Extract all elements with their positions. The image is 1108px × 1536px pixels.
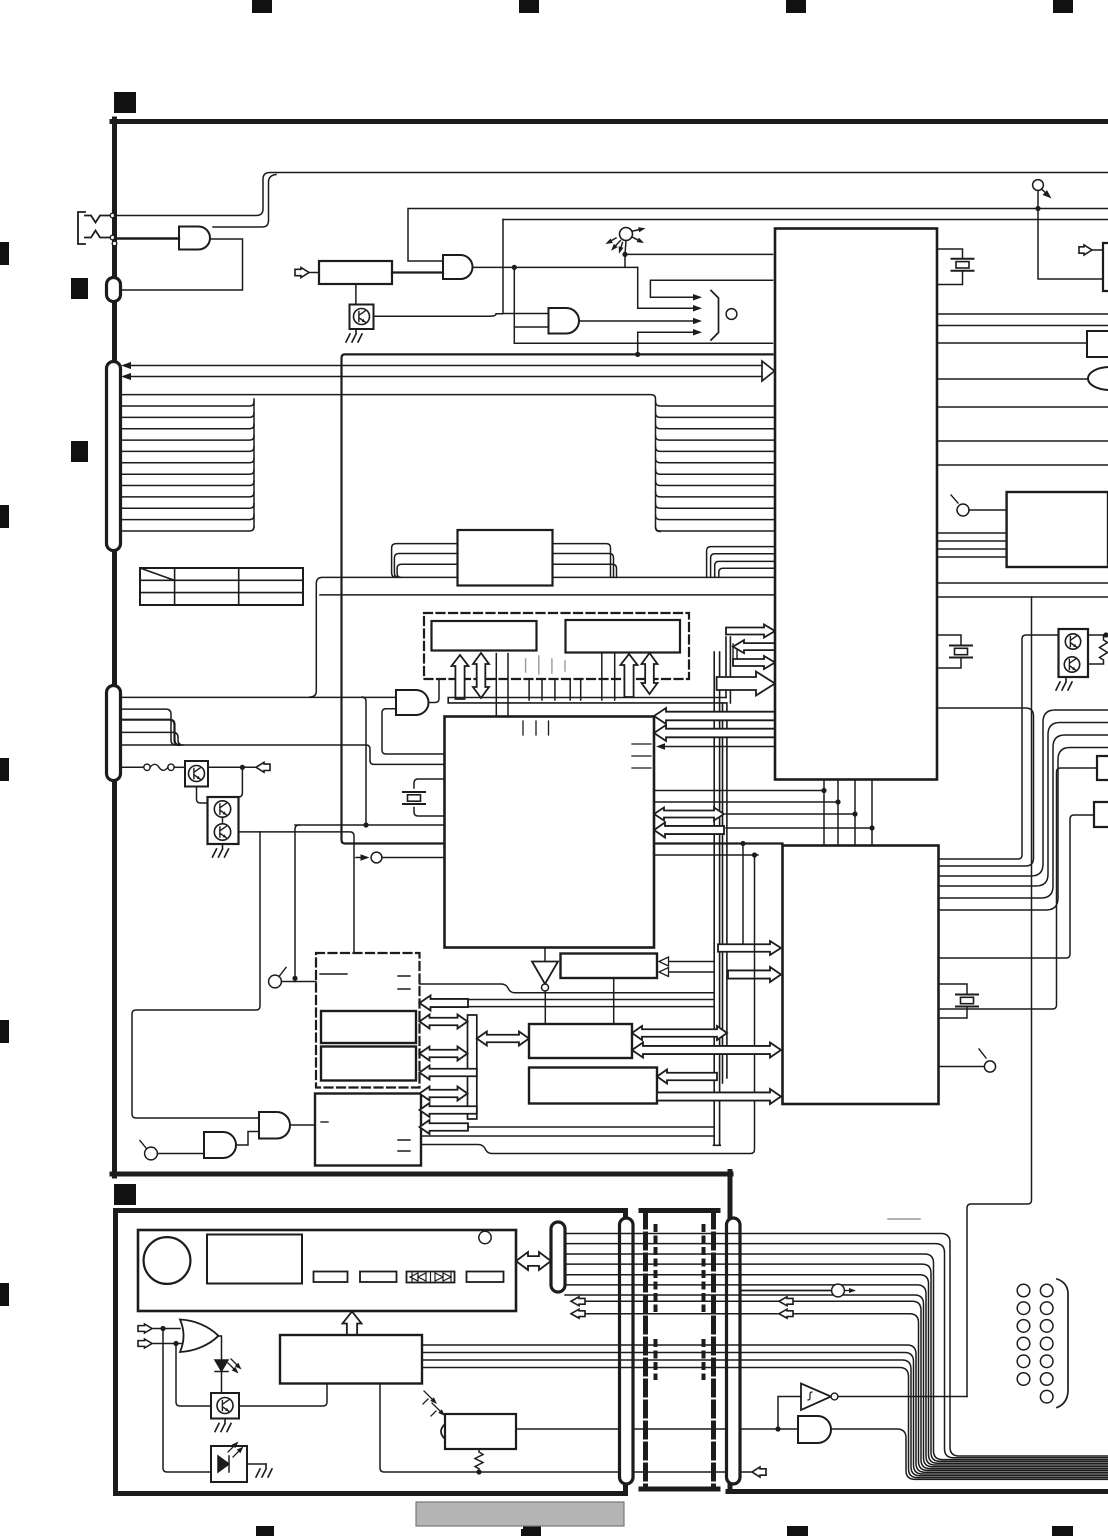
crystal X4 loop — [937, 635, 961, 668]
button 2 — [360, 1272, 397, 1283]
and gate G10 — [798, 1416, 831, 1443]
connector CN-S3 — [551, 1222, 565, 1292]
wire inverter out to N5 — [544, 991, 546, 1024]
arrow N5 to IC2 long — [632, 1043, 781, 1058]
R2R3 link channel — [733, 644, 737, 665]
junction dot on y354 — [635, 352, 640, 357]
line bus L3 — [503, 219, 1108, 221]
arrowhead fan 3 — [693, 318, 702, 324]
dot circles bracket — [1057, 1279, 1068, 1408]
ground under Q3 — [213, 844, 229, 857]
and gate G2 — [443, 255, 473, 279]
registration mark top 1 — [252, 0, 272, 13]
crystal X2 loop — [414, 779, 445, 816]
up arrow into display — [343, 1312, 362, 1336]
display to CN ldarrow — [516, 1252, 551, 1270]
testpoint circle TP3 — [832, 1284, 845, 1297]
bus arrowhead lower — [121, 373, 131, 380]
grey ticks under blocks — [526, 656, 565, 674]
channel chB lower — [723, 703, 727, 1083]
arrowhead fan 2 — [693, 305, 702, 311]
offpage arrow left — [256, 762, 270, 772]
jack contact 1 — [110, 213, 115, 218]
junction dot G2 out — [512, 265, 517, 270]
registration mark top 2 — [519, 0, 539, 13]
resistor R2 — [475, 1449, 483, 1472]
IC1 bottom pin 3 — [854, 780, 856, 846]
block N4 — [315, 1094, 421, 1166]
display bus 7 wires bundle — [565, 1234, 1108, 1467]
button 1 — [314, 1272, 348, 1283]
headphone jack J1 — [78, 212, 111, 244]
dashed box DB1 — [424, 613, 689, 679]
registration mark top 4 — [1053, 0, 1073, 13]
arrowhead fan 4 — [693, 329, 702, 335]
arrow A1 N2-VB — [420, 1015, 468, 1029]
ground under Q1 — [346, 329, 362, 342]
or input arrow 1 — [138, 1324, 152, 1333]
K1 input line y577 — [310, 577, 457, 697]
display circle pin — [479, 1231, 491, 1243]
wire x743 down to B1 — [742, 844, 744, 945]
updown arrow under M2 — [642, 653, 658, 694]
arrow L1 into U3 — [654, 708, 775, 724]
dot circles column 1 — [1017, 1284, 1030, 1297]
fan bracket — [711, 291, 719, 341]
frame 2 border — [116, 1211, 626, 1494]
wire DB2 S-bend — [420, 984, 715, 993]
wire D1 to Q5 — [221, 1372, 223, 1394]
wire branch x260 long L — [132, 832, 260, 1118]
section square A — [114, 92, 136, 113]
wire y825 to IC3 — [295, 824, 445, 826]
registration mark bottom center — [521, 1529, 538, 1536]
registration mark bottom 2 — [523, 1526, 541, 1536]
burst junction wire — [625, 254, 773, 267]
arrowhead fan 1 — [693, 294, 702, 300]
wire arrow1 U — [650, 280, 772, 297]
or input arrow 2 — [138, 1339, 152, 1348]
wire N1 down to N5 — [613, 978, 615, 1024]
wire G6 lower input — [382, 709, 445, 754]
connector CN-S1 — [620, 1218, 634, 1484]
transistor Q3 Q4 box — [208, 797, 239, 844]
wire branch x366 down — [362, 697, 366, 825]
arrow into DB2 left ch — [420, 996, 469, 1011]
wire G3 out to fan — [579, 320, 693, 322]
U3 right inner ticks — [632, 744, 651, 768]
light arrows into P2 — [424, 1391, 432, 1399]
K1 bus line y577 to IC1 — [553, 576, 776, 578]
arrow B2 into IC2 — [728, 967, 781, 982]
switch circle S5a — [957, 504, 969, 516]
arrow pair right a — [779, 1297, 793, 1306]
IC1 right wire y407 — [937, 406, 1108, 408]
display window — [207, 1235, 302, 1284]
thin arrow into U3 y746 — [664, 746, 775, 748]
button 4 — [467, 1272, 504, 1283]
K1 left comb wire 2 — [394, 554, 457, 578]
wire Q3 out — [239, 832, 355, 953]
transistor QR box — [1059, 629, 1089, 677]
wire S2a to DB2 — [282, 981, 317, 983]
registration mark left 4 — [0, 1020, 9, 1043]
block P1 under display — [280, 1335, 422, 1384]
transistor Q1 box — [350, 305, 374, 330]
arrow pair left a — [571, 1297, 585, 1306]
wire G1 output loop — [121, 239, 243, 290]
grey tick near S2 — [888, 1218, 920, 1220]
IC1 right wire y465 — [937, 464, 1108, 466]
wire B3r left — [939, 815, 1095, 958]
wire or1 down to LED box — [163, 1329, 211, 1473]
line L1 junction dot — [1035, 206, 1040, 211]
wire x295 switch riser — [295, 825, 299, 978]
block to G2 wire — [392, 271, 443, 273]
arrow A6 into N4 long — [420, 1120, 469, 1134]
vertical bus VB — [468, 1015, 477, 1119]
block N1 — [561, 954, 658, 979]
test circle TP1 — [1033, 180, 1044, 191]
bus split wires into IC1 — [707, 547, 775, 578]
registration mark bottom 4 — [1052, 1526, 1073, 1536]
registration mark top 3 — [786, 0, 806, 13]
arrow R1 into IC1 — [726, 625, 775, 638]
block M2 — [566, 620, 681, 653]
inverter V1 — [532, 962, 558, 985]
inverter V2 — [801, 1384, 831, 1411]
wire N4 S to x754 — [421, 855, 755, 1154]
and gate G3 — [549, 308, 580, 334]
K1 right merge 1 — [553, 544, 611, 578]
and gate G8 — [204, 1132, 236, 1158]
photo interrupter P2 — [445, 1414, 516, 1449]
offpage arrow y1472 — [752, 1467, 766, 1477]
K1 right merge 2 — [553, 554, 614, 578]
IC U2 mechanism control — [783, 846, 939, 1105]
button 3 seek — [407, 1272, 455, 1283]
wire arrow2 jog — [638, 267, 693, 308]
fan merge left 12 wires — [121, 402, 255, 532]
input arrow to B1 — [1079, 245, 1092, 255]
block M1 — [432, 621, 537, 651]
crystal X1 loop — [937, 249, 963, 285]
DB1 pins down — [529, 654, 615, 700]
crystal X1 — [952, 259, 974, 271]
updown arrow under M1 — [473, 653, 489, 698]
resistor RR — [1088, 635, 1108, 664]
registration mark left 2 — [0, 505, 9, 528]
updown arrow U3-chB — [654, 808, 724, 821]
block N6 — [529, 1068, 657, 1104]
dashed box DB2 — [316, 953, 420, 1088]
wire IC2 to S4a — [939, 1066, 985, 1068]
wire L3 down to G3 — [503, 220, 549, 314]
bus channel line lower — [129, 376, 762, 378]
wire S5a to SWbox — [969, 509, 1007, 511]
channel chB upper — [726, 637, 730, 703]
IC1 bottom pin 2 — [837, 780, 839, 846]
display unit box — [138, 1230, 516, 1311]
IC1 bottom pin 4 — [871, 780, 873, 846]
arrow R3 into IC1 — [733, 656, 775, 669]
arrow A3 into N3 — [420, 1066, 477, 1080]
IC1 bottom pin 1 — [823, 780, 825, 846]
bus arrowhead upper — [121, 362, 131, 369]
up arrow under M2 — [621, 654, 638, 697]
or gate G9 — [180, 1320, 219, 1353]
junction dot y843 — [740, 841, 745, 846]
section square D — [114, 1184, 136, 1205]
junction dot x366 — [363, 822, 368, 827]
wire V2 out — [838, 1396, 967, 1398]
input arrow to delay block — [295, 268, 309, 278]
testpoint circle TP3 wire — [740, 1290, 831, 1292]
delay block — [319, 261, 392, 284]
connector CN-B — [107, 686, 121, 781]
box right edge B3r — [1094, 802, 1108, 827]
wire G2 output — [473, 266, 638, 268]
wire U3 to inverter — [544, 948, 546, 962]
wire G9 to LED — [218, 1336, 222, 1360]
IC U3 servo — [445, 717, 655, 948]
wire delay to Q1 — [355, 284, 357, 305]
section square C — [71, 441, 88, 462]
box right edge B2r — [1097, 756, 1108, 780]
wire inner curve — [213, 175, 276, 228]
junction dot Q2 out — [240, 765, 245, 770]
U3 top inner ticks — [523, 721, 549, 735]
arrow N6 to IC2 long — [657, 1089, 781, 1104]
crystal X2 — [403, 792, 425, 804]
arrow L2 into U3 — [654, 725, 775, 741]
crystal X4 — [950, 646, 972, 658]
connector CN-C — [107, 362, 121, 551]
IC U1 system control — [775, 229, 937, 780]
fan vertical left — [253, 399, 255, 527]
ribbon cable inner dashed columns — [656, 1226, 704, 1378]
switch circle S2a — [269, 975, 282, 988]
switch box SW box — [1007, 492, 1108, 567]
junction dot or2 — [173, 1341, 178, 1346]
K1 left comb wire 1 — [392, 544, 458, 578]
line y595 to IC1 — [320, 594, 775, 596]
jack contact 3 — [112, 241, 117, 246]
two arrow wires — [583, 1301, 1108, 1470]
wire V2 input — [778, 1397, 801, 1430]
fan circle — [726, 309, 737, 320]
arrow left U3 y830 — [654, 823, 724, 838]
arrow R4 big into IC1 — [717, 672, 775, 696]
transistor Q5 box — [211, 1393, 239, 1419]
and gate G4 right edge — [1087, 331, 1108, 357]
section square B — [71, 278, 88, 299]
arrow R2 from IC1 — [733, 640, 775, 653]
crystal X3 — [956, 995, 978, 1007]
arrow N5 to chB — [632, 1026, 727, 1040]
wire N4 line y1136 — [421, 1135, 714, 1137]
circle input S3a — [145, 1147, 158, 1160]
arrow A4 N4-VB — [420, 1087, 468, 1101]
arrow into N6 — [657, 1070, 717, 1084]
wire D2 to ground — [247, 1463, 266, 1465]
IC1 right wire y325 — [937, 325, 1108, 327]
bus big arrowhead into IC1 — [762, 361, 775, 381]
ground right of D2 — [256, 1464, 272, 1477]
wire TP1 down to box — [1038, 191, 1103, 280]
testpoint arrow TP2 — [356, 857, 366, 859]
CN-B fan wires — [121, 709, 177, 745]
wire dot to G3 lower — [514, 267, 548, 343]
wire or2 down to Q5 — [176, 1344, 211, 1407]
ground under Q5 — [215, 1419, 231, 1432]
and gate G7 — [259, 1112, 290, 1139]
ribbon cable dashed side edges — [646, 1213, 714, 1487]
arrows into N1 — [668, 961, 714, 963]
arrow B1 into IC2 — [718, 941, 781, 955]
switch S1a contacts — [144, 764, 150, 770]
LED box D2 — [211, 1446, 247, 1482]
jack contact 2 — [110, 235, 115, 240]
DB2 inner tick — [320, 973, 347, 975]
H channel bus — [448, 698, 726, 703]
junction dot or1 — [160, 1326, 165, 1331]
wire G7 out to N4 — [290, 1124, 315, 1126]
ribbon cable top and bottom bars — [641, 1211, 718, 1490]
fan top wire — [121, 395, 661, 532]
block N5 — [529, 1024, 632, 1058]
TP1 slash arrow — [1042, 190, 1049, 197]
block N2 — [321, 1011, 416, 1043]
testpoint circle TP2 — [371, 852, 382, 863]
and gate G6 — [396, 690, 429, 715]
LED D1 — [215, 1360, 228, 1372]
registration mark bottom 3 — [787, 1526, 808, 1536]
wire G8 to G7 — [236, 1132, 259, 1146]
wire P2 out — [516, 1428, 798, 1430]
volume knob circle — [144, 1237, 191, 1284]
wire TP2 to U3 — [382, 857, 445, 859]
switch circle S4a — [984, 1061, 995, 1072]
K1 left comb wire 3 — [397, 564, 457, 577]
IC1 right wire y343 — [937, 342, 1087, 344]
DB2 right ticks — [398, 976, 410, 989]
wire IC2 y859 to QR — [939, 635, 1059, 859]
N4 inner tick — [321, 1121, 328, 1123]
wire B2r left — [939, 768, 1098, 1009]
wire Q5 out to P1 — [239, 1384, 327, 1407]
wire dot down to Q3 — [197, 767, 243, 803]
connector CN-S2 — [727, 1218, 741, 1484]
wire into G6 upper — [121, 696, 397, 698]
IC2 right 4 wires loop — [939, 710, 1108, 910]
junction dot burst — [622, 252, 627, 257]
long vertical x1031 path — [967, 597, 1032, 1397]
burst lamp symbol — [620, 228, 633, 241]
crystal X3 loop — [939, 984, 968, 1018]
signal table — [140, 568, 303, 605]
P1 4 wires bundle — [422, 1345, 1108, 1478]
wire Q2 to arrow — [208, 766, 256, 768]
line y343 to IC1 — [514, 342, 772, 344]
registration mark left 1 — [0, 242, 9, 265]
N4 right ticks — [398, 1140, 410, 1151]
ground under QR — [1056, 677, 1072, 690]
junction dot R2 — [476, 1469, 481, 1474]
up arrow under M1 — [452, 655, 469, 699]
registration mark left 5 — [0, 1283, 9, 1306]
channel chA — [714, 652, 721, 1145]
wire S3a to G8 — [158, 1153, 205, 1155]
grey bar — [416, 1502, 624, 1526]
block N3 — [321, 1047, 416, 1081]
wire jack to top bus — [115, 173, 1108, 216]
P2 wire bundle — [831, 1429, 1108, 1479]
arrow pair right b — [779, 1309, 793, 1318]
wire IC1 y583 — [937, 582, 1108, 584]
wire jack to G1 — [115, 237, 179, 239]
M1 pins down — [496, 654, 508, 717]
wire IC1 y708 loop to IC2 — [937, 708, 1034, 866]
CN-B long wire y745 — [121, 745, 445, 764]
wire Q1 out — [374, 314, 503, 316]
left arrow channel lines — [468, 1000, 714, 1007]
registration mark left 3 — [0, 758, 9, 781]
arrow pair left b — [571, 1309, 585, 1318]
thick bus y354 with V1 descender — [342, 354, 783, 843]
connector CN-A — [107, 278, 121, 302]
K1 right merge 3 — [553, 564, 617, 577]
line y855 from U3 — [654, 854, 758, 856]
wire P1 bottom to y1472 — [380, 1384, 752, 1473]
junction dot S2a — [292, 976, 297, 981]
box at right edge B1 — [1103, 243, 1108, 291]
bus channel line upper — [129, 365, 762, 367]
junction dot RR — [1103, 632, 1108, 637]
transistor Q2 box — [185, 761, 208, 787]
arrow A2 N3-VB — [420, 1047, 468, 1061]
CN-B switch wire — [121, 766, 145, 768]
wire IC1 y597 long — [937, 596, 1108, 598]
fan split right 12 wires — [656, 402, 776, 532]
IC1 to SWbox wires — [937, 533, 1007, 557]
arrow A5 into N4 — [420, 1103, 477, 1117]
wire G6 output up — [429, 679, 440, 703]
arrow VB to N5 — [477, 1032, 529, 1046]
block K1 — [458, 530, 553, 586]
registration mark bottom 1 — [256, 1526, 274, 1536]
wire switch to Q2 — [174, 766, 185, 768]
ellipse gate right edge — [1088, 367, 1108, 390]
line bus L2 — [408, 209, 1108, 262]
IC1 right wire y379 — [937, 378, 1089, 380]
IC1 right wire y314 — [937, 313, 1108, 315]
and gate G1 — [179, 227, 210, 250]
wire arrow4 feed — [638, 332, 693, 354]
IC1 right wire y441 — [937, 440, 1108, 442]
junction dot P2 line — [775, 1426, 780, 1431]
dot circles column 2 — [1040, 1284, 1053, 1297]
